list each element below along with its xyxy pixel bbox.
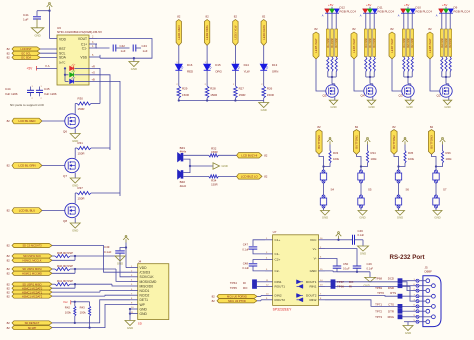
svg-text:TP69: TP69 bbox=[375, 286, 382, 290]
svg-text:LCD BL RED: LCD BL RED bbox=[19, 119, 36, 123]
svg-text:RTS: RTS bbox=[390, 291, 396, 295]
svg-text:R23 NSP: R23 NSP bbox=[446, 37, 448, 47]
svg-text:82: 82 bbox=[7, 164, 11, 168]
svg-text:ROUT1: ROUT1 bbox=[275, 285, 286, 289]
svg-text:82: 82 bbox=[7, 272, 11, 276]
svg-text:82: 82 bbox=[7, 119, 11, 123]
svg-text:VCC: VCC bbox=[310, 238, 317, 242]
svg-text:BUTTON0: BUTTON0 bbox=[317, 135, 321, 149]
svg-text:S7: S7 bbox=[443, 188, 447, 192]
svg-text:S6: S6 bbox=[406, 188, 410, 192]
svg-text:GND: GND bbox=[368, 105, 374, 109]
svg-text:XuF 1206: XuF 1206 bbox=[5, 92, 18, 96]
svg-text:82: 82 bbox=[234, 15, 238, 19]
svg-text:DET1: DET1 bbox=[140, 298, 149, 302]
svg-text:DOUT1: DOUT1 bbox=[306, 280, 317, 284]
svg-text:150R: 150R bbox=[78, 152, 85, 156]
svg-text:0.1uF: 0.1uF bbox=[104, 250, 112, 254]
svg-text:82: 82 bbox=[262, 15, 266, 19]
svg-text:100k: 100k bbox=[333, 157, 340, 161]
svg-text:LED3 YLW: LED3 YLW bbox=[234, 25, 238, 39]
svg-text:+G: +G bbox=[92, 71, 96, 75]
svg-text:RGB PLCC4: RGB PLCC4 bbox=[416, 10, 433, 14]
svg-text:TP65: TP65 bbox=[230, 286, 237, 290]
svg-text:R27: R27 bbox=[239, 86, 245, 90]
svg-text:82: 82 bbox=[264, 175, 268, 179]
svg-text:XuF 1206: XuF 1206 bbox=[44, 92, 57, 96]
svg-text:R16 NSP: R16 NSP bbox=[366, 37, 368, 47]
svg-text:R35: R35 bbox=[408, 151, 414, 155]
svg-text:C1-: C1- bbox=[82, 47, 87, 51]
svg-text:+5V: +5V bbox=[27, 67, 34, 71]
svg-text:LCD BUZ HI: LCD BUZ HI bbox=[241, 153, 257, 157]
svg-text:82: 82 bbox=[314, 27, 318, 31]
svg-text:C49: C49 bbox=[104, 245, 110, 249]
svg-text:DSR: DSR bbox=[388, 286, 394, 290]
svg-text:82: 82 bbox=[7, 326, 11, 330]
svg-text:LCD RST: LCD RST bbox=[20, 47, 32, 51]
svg-text:BUTTON2: BUTTON2 bbox=[392, 135, 396, 149]
svg-text:BUTTON1: BUTTON1 bbox=[355, 135, 359, 149]
svg-text:GND: GND bbox=[406, 105, 412, 109]
svg-text:0.1uF: 0.1uF bbox=[367, 267, 374, 271]
svg-text:V+: V+ bbox=[313, 247, 317, 251]
svg-text:GND: GND bbox=[131, 67, 137, 71]
svg-text:82: 82 bbox=[392, 125, 396, 129]
svg-text:GND: GND bbox=[140, 307, 148, 311]
svg-text:0.1uF: 0.1uF bbox=[343, 267, 350, 271]
svg-text:RIN2: RIN2 bbox=[309, 298, 316, 302]
svg-text:TP71: TP71 bbox=[375, 302, 382, 306]
svg-text:100k: 100k bbox=[65, 310, 72, 314]
svg-text:Q6: Q6 bbox=[63, 130, 67, 134]
svg-text:GND: GND bbox=[127, 326, 133, 330]
svg-text:82: 82 bbox=[355, 125, 359, 129]
svg-text:C47: C47 bbox=[243, 243, 249, 247]
svg-text:DIN1: DIN1 bbox=[275, 280, 282, 284]
svg-text:0.1uF: 0.1uF bbox=[242, 266, 249, 270]
svg-text:TP73: TP73 bbox=[375, 315, 382, 319]
svg-text:Vcc: Vcc bbox=[63, 300, 68, 304]
svg-text:0.1uF: 0.1uF bbox=[358, 233, 365, 237]
svg-text:SP3232EEY: SP3232EEY bbox=[273, 307, 293, 311]
svg-text:WP: WP bbox=[140, 303, 146, 307]
svg-text:0x7C: 0x7C bbox=[59, 60, 65, 64]
svg-text:100k: 100k bbox=[371, 157, 378, 161]
svg-text:82: 82 bbox=[317, 125, 321, 129]
svg-text:100k: 100k bbox=[408, 157, 415, 161]
svg-text:NC parts to support LCD: NC parts to support LCD bbox=[10, 103, 45, 107]
svg-text:TP67: TP67 bbox=[337, 280, 344, 284]
svg-text:TP64: TP64 bbox=[230, 281, 237, 285]
svg-text:MOSI/CMD: MOSI/CMD bbox=[140, 280, 157, 284]
svg-text:82: 82 bbox=[390, 27, 394, 31]
svg-text:RNG: RNG bbox=[388, 315, 395, 319]
svg-text:+R: +R bbox=[92, 64, 96, 68]
svg-text:HSMC1 MCCMD: HSMC1 MCCMD bbox=[22, 271, 42, 275]
svg-text:ROUT2: ROUT2 bbox=[275, 298, 286, 302]
svg-text:D16: D16 bbox=[187, 63, 193, 67]
svg-text:A: A bbox=[322, 14, 324, 18]
svg-text:SD USPI1 SCK: SD USPI1 SCK bbox=[23, 254, 41, 258]
svg-text:A: A bbox=[398, 14, 400, 18]
svg-text:RGB PLCC4: RGB PLCC4 bbox=[454, 10, 471, 14]
svg-text:GND: GND bbox=[310, 269, 318, 273]
svg-text:1uF: 1uF bbox=[143, 49, 148, 53]
svg-text:MCU U0 PTXD: MCU U0 PTXD bbox=[228, 299, 246, 303]
svg-text:82: 82 bbox=[212, 299, 216, 303]
svg-text:R41 0R NSP: R41 0R NSP bbox=[57, 279, 73, 283]
svg-text:82: 82 bbox=[428, 27, 432, 31]
svg-text:C2+: C2+ bbox=[275, 258, 281, 262]
svg-text:82: 82 bbox=[264, 154, 268, 158]
svg-text:R33: R33 bbox=[333, 151, 339, 155]
svg-text:+5V: +5V bbox=[442, 3, 447, 7]
svg-text:DCD: DCD bbox=[388, 277, 394, 281]
svg-text:TP70: TP70 bbox=[377, 291, 384, 295]
svg-text:NC/D2: NC/D2 bbox=[140, 294, 150, 298]
svg-text:C41: C41 bbox=[23, 13, 29, 17]
svg-text:82: 82 bbox=[212, 295, 216, 299]
svg-text:VDD: VDD bbox=[140, 266, 148, 270]
svg-text:GND: GND bbox=[117, 261, 123, 265]
svg-text:R43: R43 bbox=[80, 306, 86, 310]
svg-text:C44: C44 bbox=[5, 87, 11, 91]
svg-text:TP72: TP72 bbox=[375, 309, 382, 313]
svg-text:LED6 WHT: LED6 WHT bbox=[352, 38, 356, 53]
svg-text:V A: V A bbox=[45, 64, 50, 68]
svg-text:RI: RI bbox=[349, 285, 352, 289]
svg-text:R14 NSP: R14 NSP bbox=[332, 37, 334, 47]
svg-text:S5: S5 bbox=[368, 188, 372, 192]
svg-text:VOUT: VOUT bbox=[78, 37, 87, 41]
svg-text:Q4: Q4 bbox=[361, 94, 365, 98]
svg-text:0.1uF: 0.1uF bbox=[242, 247, 249, 251]
svg-text:R31: R31 bbox=[78, 141, 84, 145]
svg-text:150R: 150R bbox=[78, 107, 85, 111]
svg-text:LED7 WHT: LED7 WHT bbox=[390, 38, 394, 53]
svg-text:R34: R34 bbox=[211, 179, 217, 183]
svg-text:150R: 150R bbox=[182, 93, 189, 97]
svg-text:C1-: C1- bbox=[275, 252, 280, 256]
svg-text:LED4 GRN: LED4 GRN bbox=[262, 25, 266, 39]
svg-text:LED5 WHT: LED5 WHT bbox=[314, 38, 318, 53]
svg-text:SCK/CLK: SCK/CLK bbox=[140, 275, 155, 279]
svg-text:A: A bbox=[360, 14, 362, 18]
svg-text:82: 82 bbox=[7, 209, 11, 213]
svg-text:SDA: SDA bbox=[59, 56, 67, 60]
svg-text:Q7: Q7 bbox=[63, 174, 67, 178]
svg-text:GND: GND bbox=[434, 216, 440, 220]
svg-text:TP66: TP66 bbox=[337, 285, 344, 289]
svg-text:SD USPI1 MOSI: SD USPI1 MOSI bbox=[22, 267, 41, 271]
svg-text:R17 NSP: R17 NSP bbox=[370, 37, 372, 47]
svg-text:R21 NSP: R21 NSP bbox=[412, 37, 414, 47]
svg-text:MCU U0 PORXD: MCU U0 PORXD bbox=[227, 295, 247, 299]
svg-text:+B: +B bbox=[92, 77, 96, 81]
svg-text:GND: GND bbox=[360, 251, 366, 255]
svg-text:C43: C43 bbox=[142, 44, 148, 48]
svg-text:DI: DI bbox=[243, 281, 246, 285]
svg-text:R36: R36 bbox=[446, 151, 452, 155]
svg-text:D13: D13 bbox=[272, 63, 278, 67]
svg-text:V-: V- bbox=[314, 257, 317, 261]
svg-text:150R: 150R bbox=[267, 93, 274, 97]
svg-text:82: 82 bbox=[205, 15, 209, 19]
svg-text:RED: RED bbox=[187, 69, 193, 73]
svg-text:ORG: ORG bbox=[215, 69, 222, 73]
svg-text:R15 NSP: R15 NSP bbox=[336, 37, 338, 47]
svg-text:R19 NSP: R19 NSP bbox=[404, 37, 406, 47]
svg-text:C50: C50 bbox=[343, 262, 349, 266]
svg-text:GND: GND bbox=[397, 216, 403, 220]
svg-text:GND: GND bbox=[261, 108, 267, 112]
svg-text:GND: GND bbox=[34, 34, 40, 38]
svg-text:C2-: C2- bbox=[275, 269, 280, 273]
svg-text:C1+: C1+ bbox=[275, 238, 281, 242]
svg-text:GND: GND bbox=[444, 105, 450, 109]
svg-text:CTS: CTS bbox=[388, 302, 394, 306]
svg-text:A: A bbox=[436, 14, 438, 18]
svg-text:SD WP: SD WP bbox=[28, 326, 37, 330]
svg-text:+5V: +5V bbox=[404, 3, 409, 7]
svg-text:R40 0R NSP: R40 0R NSP bbox=[57, 264, 73, 268]
svg-text:LCD BL GRN: LCD BL GRN bbox=[18, 164, 35, 168]
svg-text:C42: C42 bbox=[120, 44, 126, 48]
svg-text:82: 82 bbox=[177, 15, 181, 19]
svg-text:82: 82 bbox=[7, 56, 11, 60]
svg-text:150R: 150R bbox=[78, 197, 85, 201]
svg-text:I2C SCL: I2C SCL bbox=[21, 51, 31, 55]
svg-text:82: 82 bbox=[7, 244, 11, 248]
svg-text:YLW: YLW bbox=[244, 69, 250, 73]
svg-text:150R: 150R bbox=[211, 150, 217, 154]
svg-text:R37: R37 bbox=[78, 186, 84, 190]
svg-text:82: 82 bbox=[352, 27, 356, 31]
svg-text:GND: GND bbox=[222, 164, 228, 168]
svg-text:+5V: +5V bbox=[328, 3, 333, 7]
svg-text:R26: R26 bbox=[267, 86, 273, 90]
svg-text:R32: R32 bbox=[211, 146, 217, 150]
svg-text:SD CS MCDAT3: SD CS MCDAT3 bbox=[22, 244, 42, 248]
svg-text:RIN1: RIN1 bbox=[309, 285, 316, 289]
svg-text:R38 0R NSP: R38 0R NSP bbox=[57, 251, 73, 255]
svg-text:150R: 150R bbox=[239, 93, 246, 97]
svg-text:RGB PLCC4: RGB PLCC4 bbox=[378, 10, 395, 14]
svg-text:82: 82 bbox=[7, 259, 11, 263]
svg-text:100k: 100k bbox=[80, 310, 87, 314]
svg-text:D14: D14 bbox=[244, 63, 250, 67]
svg-text:GND: GND bbox=[140, 312, 148, 316]
svg-text:C48: C48 bbox=[243, 261, 249, 265]
svg-text:Q5: Q5 bbox=[323, 94, 327, 98]
svg-text:TP68: TP68 bbox=[375, 277, 382, 281]
svg-text:R24 NSP: R24 NSP bbox=[450, 37, 452, 47]
svg-text:NC/D1: NC/D1 bbox=[140, 289, 150, 293]
svg-text:R29: R29 bbox=[182, 86, 188, 90]
svg-text:R20 NSP: R20 NSP bbox=[408, 37, 410, 47]
svg-text:C45: C45 bbox=[44, 87, 50, 91]
svg-text:LED8 WHT: LED8 WHT bbox=[428, 38, 432, 53]
svg-text:GND: GND bbox=[322, 216, 328, 220]
svg-text:S4: S4 bbox=[331, 188, 335, 192]
svg-text:U7: U7 bbox=[273, 230, 277, 234]
svg-text:RS-232 Port: RS-232 Port bbox=[390, 254, 425, 261]
svg-text:4kHz: 4kHz bbox=[180, 184, 187, 188]
svg-text:GND: GND bbox=[405, 331, 411, 335]
svg-text:R13 NSP: R13 NSP bbox=[328, 37, 330, 47]
svg-text:GND: GND bbox=[330, 105, 336, 109]
svg-text:82: 82 bbox=[7, 321, 11, 325]
svg-text:Q8: Q8 bbox=[63, 219, 67, 223]
svg-text:I2C SDA: I2C SDA bbox=[21, 56, 31, 60]
svg-text:C49: C49 bbox=[367, 262, 373, 266]
svg-text:MISO/D0: MISO/D0 bbox=[140, 284, 154, 288]
svg-text:VDD: VDD bbox=[59, 37, 67, 41]
svg-text:DO: DO bbox=[349, 280, 354, 284]
svg-text:1uF: 1uF bbox=[23, 18, 28, 22]
svg-text:Q3: Q3 bbox=[399, 94, 403, 98]
svg-text:R42: R42 bbox=[65, 306, 71, 310]
svg-text:R34: R34 bbox=[371, 151, 377, 155]
svg-text:HSMC1 MCDAT2: HSMC1 MCDAT2 bbox=[22, 294, 43, 298]
svg-text:+5V: +5V bbox=[366, 3, 371, 7]
svg-text:LCD BUZ LO: LCD BUZ LO bbox=[241, 175, 259, 179]
svg-text:LED1 RED: LED1 RED bbox=[177, 25, 181, 39]
svg-text:R30: R30 bbox=[78, 96, 84, 100]
svg-text:J4: J4 bbox=[138, 260, 142, 264]
svg-text:BUTTON3: BUTTON3 bbox=[430, 135, 434, 149]
svg-text:R22 NSP: R22 NSP bbox=[442, 37, 444, 47]
svg-text:C46: C46 bbox=[358, 229, 364, 233]
svg-text:DB9F: DB9F bbox=[425, 270, 433, 274]
svg-text:D15: D15 bbox=[215, 63, 221, 67]
svg-text:150R: 150R bbox=[211, 182, 217, 186]
svg-text:NHD-C0220BiZ-FS(RGB)-FB-5V: NHD-C0220BiZ-FS(RGB)-FB-5V bbox=[57, 30, 103, 34]
svg-text:SD DETECT: SD DETECT bbox=[25, 321, 40, 325]
svg-text:Q2: Q2 bbox=[437, 94, 441, 98]
svg-text:DTR: DTR bbox=[388, 309, 394, 313]
svg-text:LED2 ORG: LED2 ORG bbox=[205, 24, 209, 39]
svg-text:GRN: GRN bbox=[272, 69, 278, 73]
svg-text:82: 82 bbox=[7, 294, 11, 298]
svg-text:R18 NSP: R18 NSP bbox=[374, 37, 376, 47]
svg-text:R28: R28 bbox=[210, 86, 216, 90]
svg-text:100k: 100k bbox=[446, 157, 453, 161]
svg-text:GND: GND bbox=[72, 228, 78, 232]
svg-text:RGB PLCC4: RGB PLCC4 bbox=[340, 10, 357, 14]
svg-text:/CS/D3: /CS/D3 bbox=[140, 271, 151, 275]
svg-text:82: 82 bbox=[430, 125, 434, 129]
svg-text:RO: RO bbox=[243, 286, 248, 290]
svg-text:1uF: 1uF bbox=[121, 49, 126, 53]
svg-text:LCD BL BLU: LCD BL BLU bbox=[19, 209, 35, 213]
svg-text:GND: GND bbox=[359, 216, 365, 220]
svg-text:150R: 150R bbox=[210, 93, 217, 97]
svg-text:VSS: VSS bbox=[80, 56, 87, 60]
svg-text:HSMC1 MCCLK: HSMC1 MCCLK bbox=[23, 258, 42, 262]
